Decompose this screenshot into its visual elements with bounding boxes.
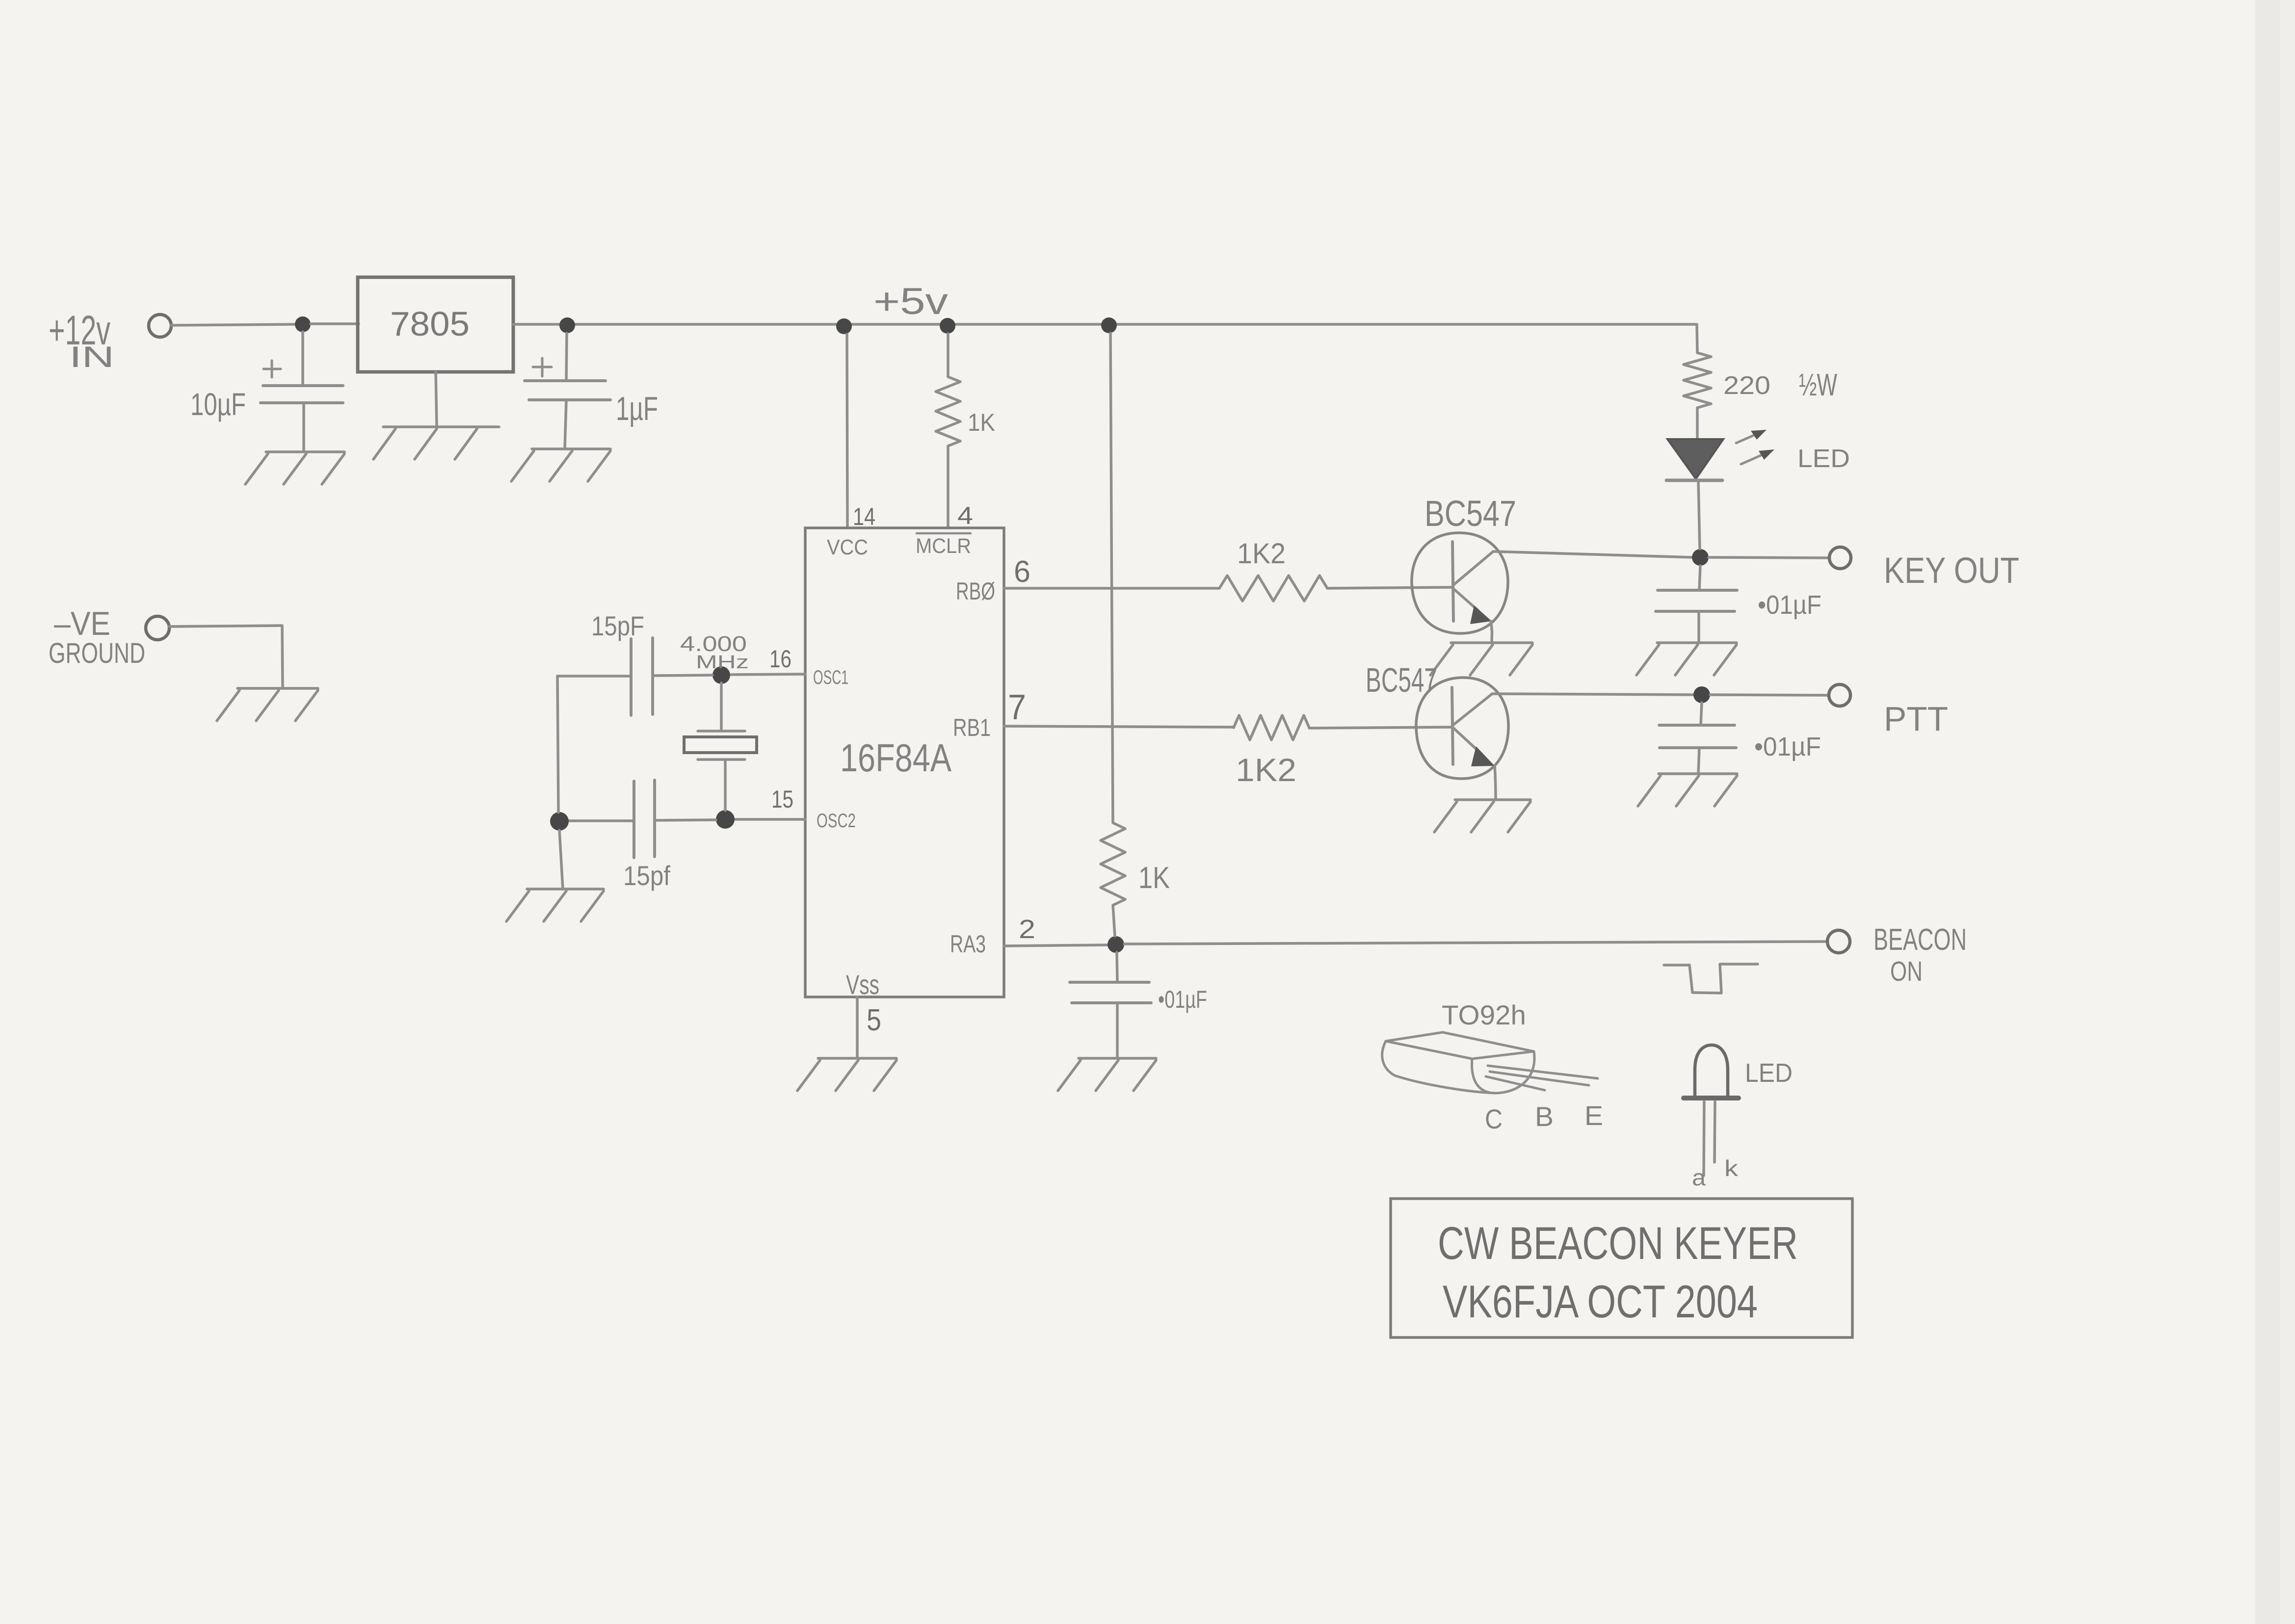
svg-text:a: a [1692,1165,1706,1190]
junction +12v / C1 [295,316,311,332]
svg-text:LED: LED [1745,1058,1793,1088]
svg-text:GROUND: GROUND [49,637,145,669]
resistor R5 220 [1684,353,1711,408]
wire D1 cathode to KEY OUT junction [1698,480,1700,549]
svg-text:VCC: VCC [827,535,868,559]
ground C2 [532,447,610,450]
svg-text:1K2: 1K2 [1236,752,1296,788]
svg-text:RBØ: RBØ [956,577,995,605]
svg-text:MHz: MHz [696,652,749,673]
svg-text:BC547: BC547 [1424,493,1516,534]
ground oscillator [527,888,604,891]
svg-text:E: E [1584,1100,1603,1131]
capacitor C1 10uF positive lead [301,332,304,386]
wire RA3 pin 2 to junction [1004,945,1108,946]
ground -VE input [237,687,318,690]
svg-text:C: C [1485,1103,1503,1134]
svg-text:5: 5 [867,1003,881,1037]
capacitor C1 10uF [263,384,343,387]
svg-text:OSC1: OSC1 [813,667,848,688]
wire OSC1 pin to crystal junction [731,674,805,675]
capacitor C6 .01uF [1658,589,1737,592]
crystal X1 4.000MHz [698,730,745,733]
svg-text:LED: LED [1797,445,1850,473]
ground C5 [1079,1057,1156,1060]
wire junction to 7805 input [311,322,359,325]
svg-text:1K: 1K [1138,861,1170,895]
svg-text:1K: 1K [968,409,995,436]
wire -VE terminal to ground [169,626,282,627]
resistor R2 1K2 [1219,576,1327,601]
wire RA3 junction to BEACON terminal [1124,942,1827,944]
wire +5v rail [513,323,1697,326]
junction MCLR stub [940,318,955,334]
ground Q1 emitter [1451,641,1532,644]
svg-text:•01µF: •01µF [1158,986,1207,1013]
junction crystal top / OSC1 [712,666,730,684]
ground Vss [818,1057,897,1060]
junction osc left [550,812,569,831]
svg-text:16: 16 [769,645,791,673]
wire 7805 ground lead [436,372,437,427]
terminal +12v IN [149,314,171,337]
junction C2 1uF [559,317,575,333]
svg-text:1K2: 1K2 [1237,538,1286,570]
svg-text:CW BEACON KEYER: CW BEACON KEYER [1438,1217,1798,1269]
wire KEY OUT junction to C6 [1699,566,1700,590]
svg-text:220: 220 [1723,371,1770,400]
title box [1391,1199,1852,1337]
wire +12v terminal to junction [171,324,295,325]
ground 7805 [383,425,499,428]
resistor R4 1K [1101,823,1125,905]
capacitor C7 .01uF [1659,724,1735,727]
wire C4 to left junction [569,819,634,822]
terminal BEACON ON [1827,930,1850,953]
svg-text:½W: ½W [1799,367,1837,402]
wire R1 to MCLR pin 4 [947,446,950,528]
ground C7 [1659,772,1737,775]
wire Vss pin 5 to ground [856,997,859,1058]
wire left junction to ground [559,830,563,889]
wire R2 to Q1 base [1327,587,1452,588]
svg-text:+5v: +5v [873,281,948,322]
capacitor C3 15pF [630,639,633,715]
wire crystal bottom junction to C4 [656,820,716,820]
svg-text:BC547: BC547 [1366,661,1437,699]
capacitor C2 1uF [525,379,606,382]
resistor R3 1K2 [1234,715,1309,740]
svg-text:15: 15 [771,786,793,813]
wire junction to PTT terminal [1710,695,1828,695]
terminal KEY OUT [1829,547,1851,569]
resistor R1 1K [936,377,960,446]
junction RA3 [1108,936,1124,953]
svg-text:•01µF: •01µF [1758,590,1821,620]
svg-text:10µF: 10µF [190,387,246,422]
capacitor C2 1uF lead [566,333,567,381]
svg-text:BEACON: BEACON [1873,923,1967,957]
svg-text:RA3: RA3 [950,930,986,958]
svg-text:15pF: 15pF [591,610,644,641]
wire C3 to left vertical [557,675,631,678]
wire RA3 junction down to C5 [1117,952,1117,982]
wire R4 to RA3 junction [1113,905,1115,936]
capacitor C5 .01uF [1070,981,1149,984]
LED D1 [1667,439,1723,479]
svg-text:7: 7 [1008,688,1026,727]
svg-text:6: 6 [1014,555,1030,589]
svg-text:OSC2: OSC2 [817,810,856,832]
transistor Q2 BC547 [1416,678,1508,779]
wire +5v to VCC pin 14 [847,334,847,528]
ground Q2 emitter [1455,798,1530,801]
svg-text:RB1: RB1 [953,714,991,741]
svg-text:15pf: 15pf [623,860,670,891]
svg-text:PTT: PTT [1884,700,1948,738]
pulse symbol negative going [1664,964,1758,993]
svg-text:2: 2 [1019,915,1035,944]
svg-text:TO92h: TO92h [1442,999,1526,1030]
crystal X1 lead top [720,683,723,731]
regulator 7805 [358,277,513,372]
svg-text:k: k [1724,1155,1739,1181]
wire PTT junction to C7 [1701,703,1702,725]
junction crystal bottom / OSC2 [716,810,735,829]
wire RB1 pin 7 to R3 [1004,726,1234,727]
capacitor C4 15pf [633,781,635,858]
svg-text:14: 14 [853,503,875,530]
wire RB0 pin 6 to R2 [1004,587,1219,590]
svg-text:KEY OUT: KEY OUT [1884,550,2019,591]
svg-text:•01µF: •01µF [1754,732,1821,761]
wire R3 to Q2 base [1309,727,1452,728]
svg-text:1µF: 1µF [616,390,658,427]
svg-text:B: B [1535,1101,1554,1132]
transistor Q1 BC547 [1412,533,1508,633]
package TO92 leads [1488,1066,1598,1078]
svg-text:4: 4 [957,502,973,529]
wire junction to KEY OUT terminal [1709,557,1829,558]
wire +5v to R1 [947,334,950,377]
svg-text:VK6FJA OCT 2004: VK6FJA OCT 2004 [1443,1276,1758,1327]
wire crystal junction to C3 [654,675,712,676]
package drawing TO92 [1386,1032,1534,1051]
crystal X1 lead bottom [724,760,727,811]
wire +5v branch vertical [1110,333,1113,823]
svg-text:MCLR: MCLR [916,534,971,558]
svg-text:IN: IN [69,341,114,373]
junction VCC stub [836,318,852,334]
svg-text:7805: 7805 [390,305,470,343]
package drawing LED [1695,1045,1728,1097]
IC U1 16F84A body [805,528,1004,997]
svg-text:ON: ON [1890,956,1923,987]
svg-text:–VE: –VE [54,605,110,642]
junction KEY OUT [1692,549,1709,566]
ground C6 [1657,641,1737,644]
terminal -VE GROUND [146,616,169,640]
wire OSC2 pin to crystal junction [735,818,805,821]
svg-text:Vss: Vss [846,969,879,1000]
wire +5v rail corner down to R5 [1697,324,1697,353]
svg-text:16F84A: 16F84A [840,736,952,780]
wire Q1 collector to KEY OUT junction [1493,551,1692,557]
wire oscillator left vertical [557,676,558,812]
junction +5v branch to R4 [1101,317,1117,333]
ground C1 [266,450,344,453]
wire Q2 collector to PTT junction [1492,694,1693,695]
terminal PTT [1829,684,1850,706]
wire R5 to LED D1 [1696,408,1699,438]
junction PTT [1693,686,1710,703]
